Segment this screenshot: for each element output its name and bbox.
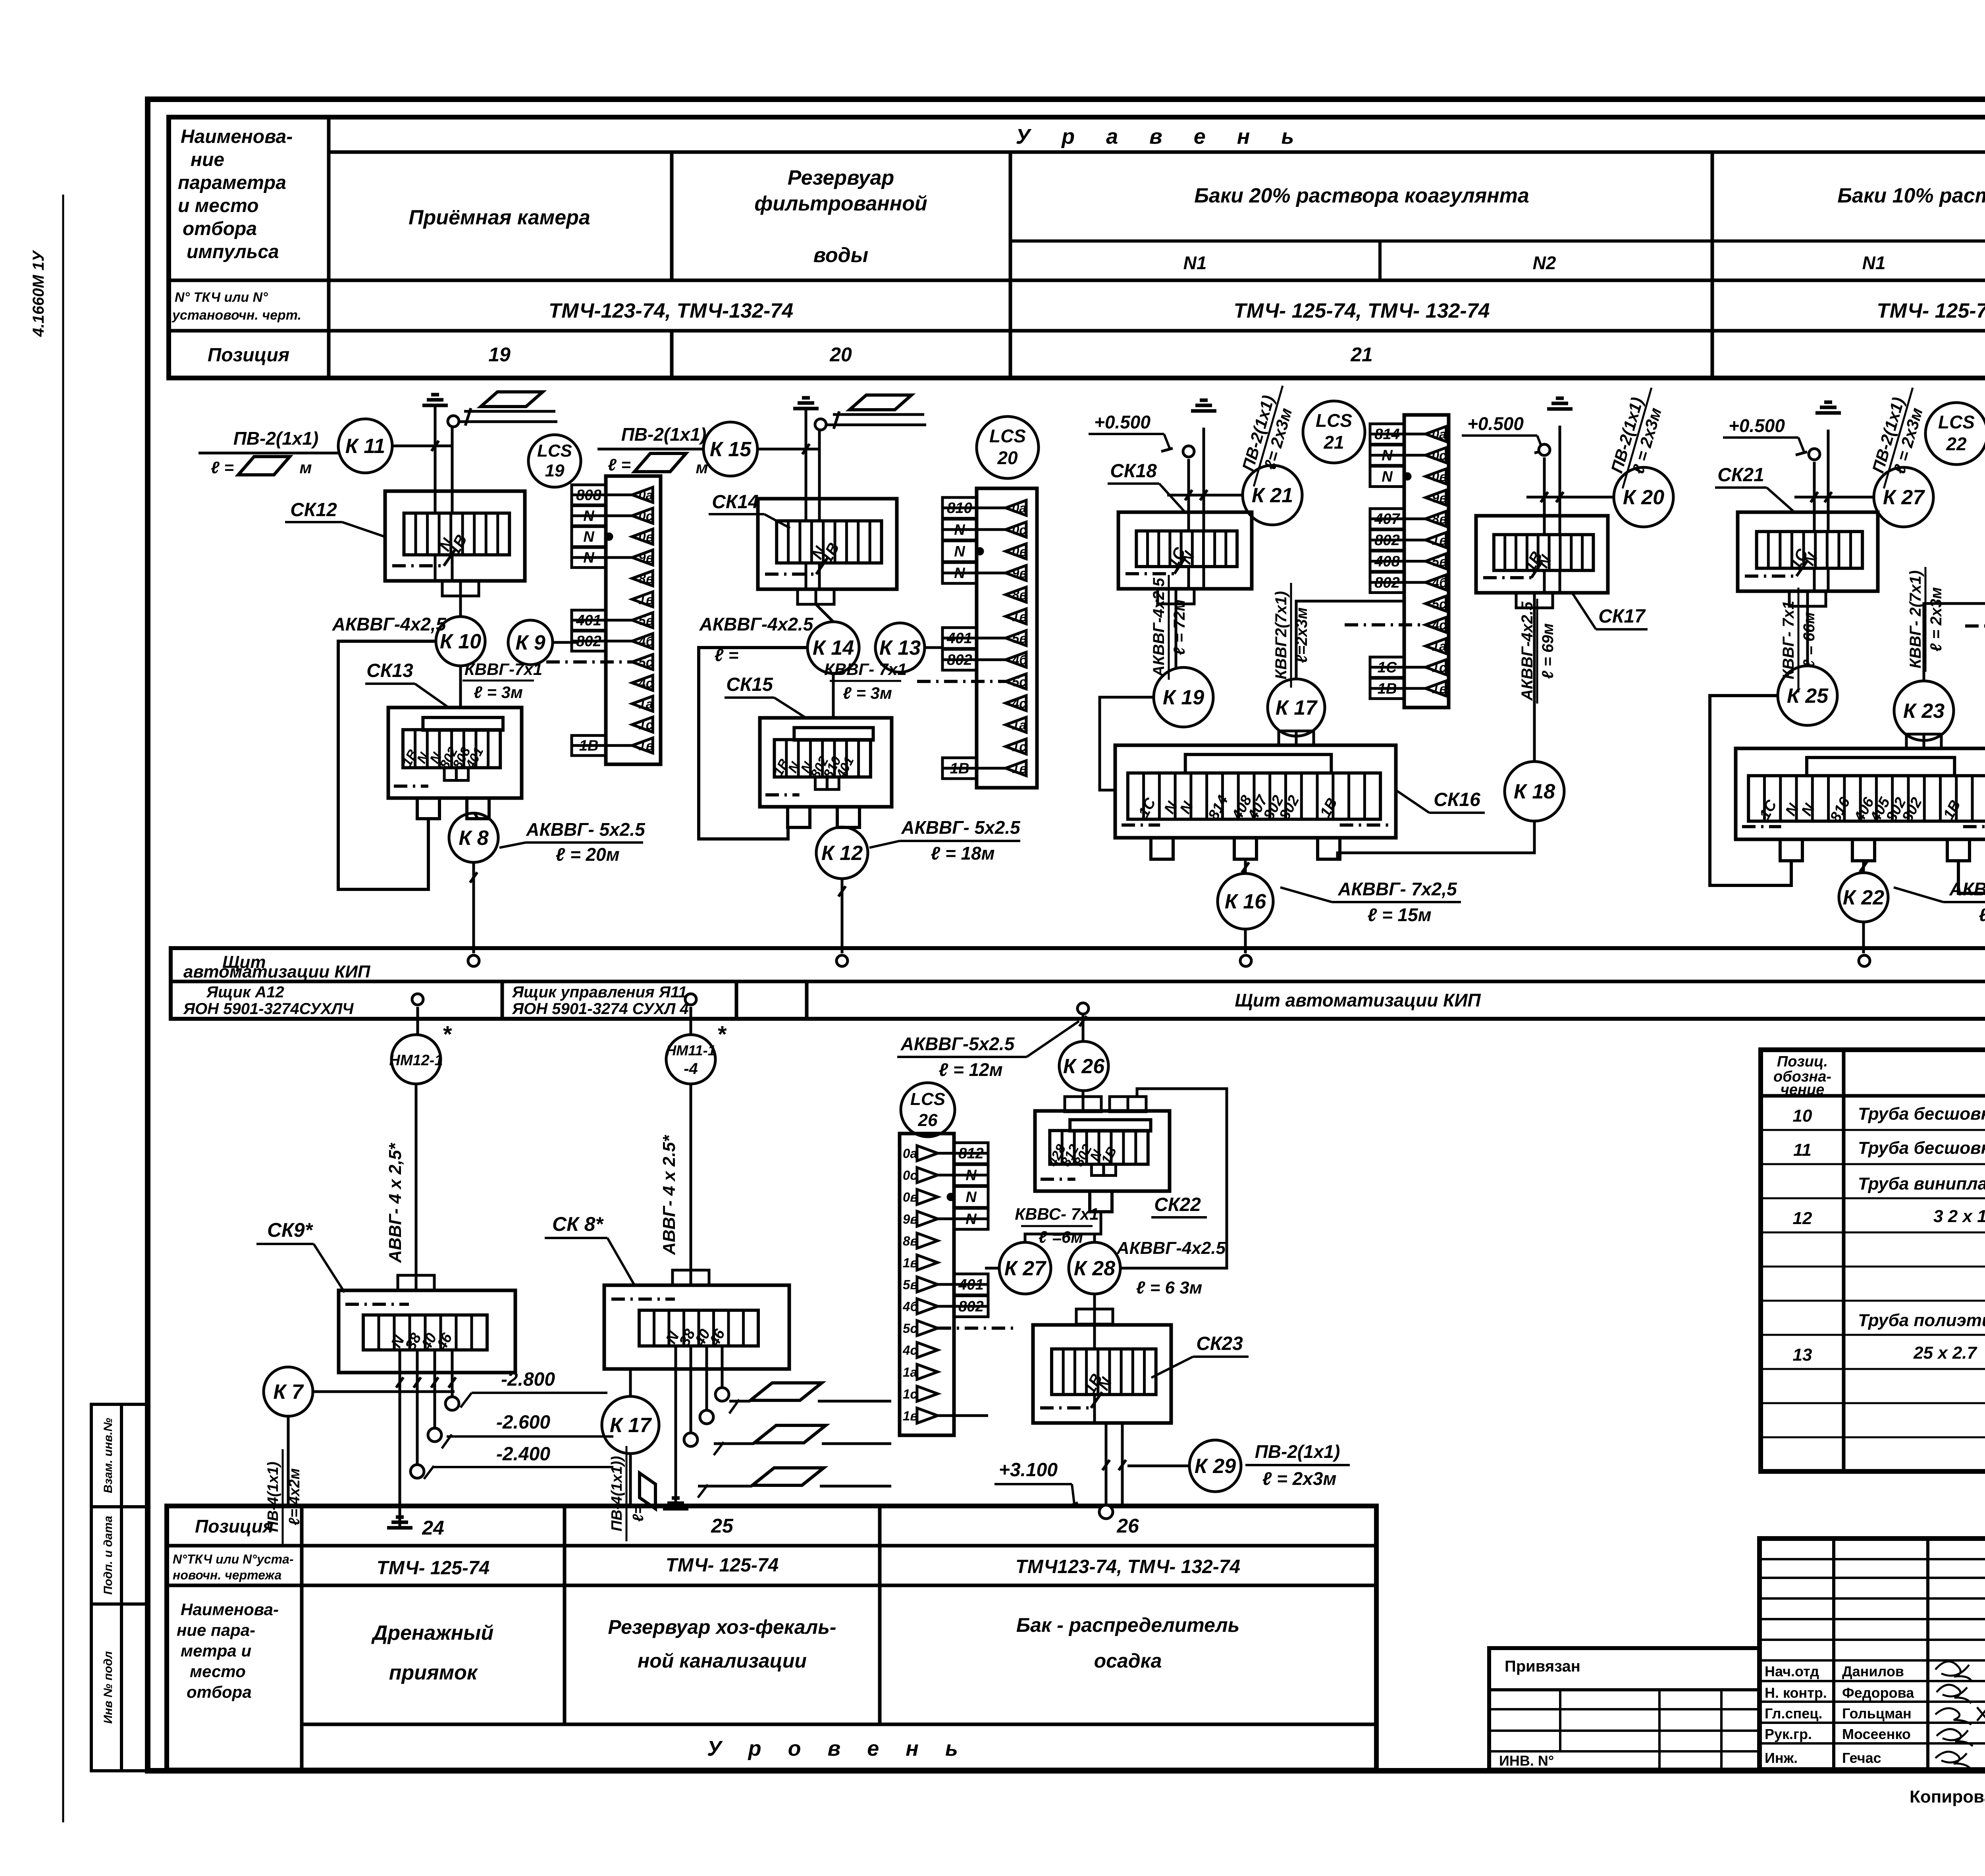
svg-text:0с: 0с (1432, 448, 1447, 463)
svg-text:1в: 1в (1012, 761, 1027, 776)
svg-text:метра и: метра и (181, 1641, 251, 1660)
svg-text:8в: 8в (1432, 512, 1447, 526)
svg-text:N: N (583, 529, 595, 546)
junction К12 (816, 827, 868, 879)
node above СК17 (1539, 444, 1550, 455)
wire strip26 to К27r (985, 1267, 999, 1270)
paper edge line left (62, 195, 64, 1822)
svg-text:К 11: К 11 (345, 435, 385, 458)
cable АКВВГ-4х2.5 run 20 (699, 648, 807, 839)
svg-text:КВВС- 7х1: КВВС- 7х1 (1015, 1205, 1099, 1223)
sensor box СК14 (758, 499, 897, 589)
svg-text:К 17: К 17 (610, 1414, 652, 1437)
cable label ПВ-2(1х1) 2х3м rotated at К21 (1235, 380, 1301, 492)
wire К17r down (629, 1454, 632, 1506)
junction К21 (1243, 465, 1302, 525)
svg-text:СК13: СК13 (366, 660, 413, 681)
junction К17 (1268, 679, 1325, 736)
svg-text:Данилов: Данилов (1842, 1663, 1904, 1679)
wire СК16 to К16 (1244, 859, 1247, 873)
svg-text:1в: 1в (638, 738, 653, 753)
title block left grid verticals (1832, 1539, 1835, 1770)
stub above СК22 right (1110, 1097, 1146, 1112)
svg-text:N: N (954, 543, 966, 560)
svg-text:СК18: СК18 (1110, 461, 1157, 482)
svg-text:К 22: К 22 (1843, 886, 1884, 909)
top table frame (169, 117, 1985, 378)
svg-text:К 20: К 20 (1623, 486, 1664, 509)
svg-text:0в: 0в (1432, 469, 1447, 484)
svg-text:26: 26 (918, 1111, 938, 1130)
svg-text:1с: 1с (903, 1386, 917, 1401)
junction К10 (436, 617, 485, 666)
sensor box СК8 (604, 1285, 789, 1369)
svg-text:Подп. и дата: Подп. и дата (102, 1516, 115, 1595)
svg-text:СК17: СК17 (1598, 606, 1646, 627)
wire СК21 to К25 (1806, 606, 1809, 666)
cable КВВГ-2(7х1) rotated (1907, 567, 1945, 672)
cable АКВВГ-4х2.5 69м rotated (1519, 599, 1557, 704)
svg-text:+0.500: +0.500 (1467, 413, 1524, 434)
wire СК13 to К8 (474, 813, 478, 819)
sensor box СК23 (1033, 1325, 1171, 1423)
cable loop АКВВГ-4х2.5 63м (1120, 1089, 1227, 1268)
svg-text:ПВ-2(1х1): ПВ-2(1х1) (621, 424, 707, 445)
svg-text:ℓ = 20м: ℓ = 20м (555, 844, 619, 865)
svg-text:9в: 9в (638, 550, 653, 565)
flag g25-2 (754, 1425, 826, 1443)
svg-text:СК14: СК14 (712, 492, 759, 513)
svg-text:Позиция: Позиция (195, 1516, 274, 1537)
wire end circle 38 (410, 1465, 424, 1478)
svg-text:Наименова-: Наименова- (181, 1600, 279, 1619)
bus band2 divider (805, 981, 809, 1019)
continuation table header row (1761, 1094, 1985, 1098)
svg-text:N2: N2 (1533, 253, 1556, 273)
svg-text:5в: 5в (1012, 631, 1027, 646)
ground at СК14 (793, 398, 819, 409)
svg-text:*: * (717, 1022, 727, 1047)
ground under СК8 (663, 1498, 688, 1509)
junction К8 (449, 813, 498, 862)
svg-text:3 2 х 1.8: 3 2 х 1.8 (1933, 1207, 1985, 1226)
svg-text:1а: 1а (1432, 639, 1447, 654)
node above СК18 (1183, 446, 1194, 457)
bottom table row line 1 (167, 1544, 1376, 1548)
wire СК12 to К10 (459, 596, 462, 617)
svg-text:СК16: СК16 (1434, 789, 1480, 810)
wire К7 crossing (313, 1390, 455, 1393)
ground under СК9 (387, 1517, 412, 1528)
svg-text:0а: 0а (1012, 501, 1027, 515)
svg-text:10: 10 (1793, 1106, 1812, 1126)
bottom table row line 2 (167, 1584, 1376, 1587)
svg-text:5с: 5с (1012, 674, 1027, 689)
svg-text:Гольцман: Гольцман (1842, 1705, 1912, 1722)
wire НМ12-1 to СК9 (415, 1084, 418, 1275)
wire К25 left to СК19 (1710, 696, 1791, 885)
svg-text:19: 19 (488, 343, 511, 366)
svg-text:АКВВГ-4х2,5: АКВВГ-4х2,5 (1150, 578, 1168, 677)
cable АКВВГ-4х2.5 72м rotated (1150, 575, 1188, 680)
svg-text:НМ12-1: НМ12-1 (389, 1052, 443, 1069)
top table row line under Уровень (329, 150, 1985, 154)
svg-text:приямок: приямок (389, 1661, 478, 1684)
node above СК12 (448, 416, 459, 427)
margin cell Взам. инв № (91, 1404, 121, 1507)
stub under СК14 (798, 589, 834, 604)
svg-text:ЯОН 5901-3274СУХЛЧ: ЯОН 5901-3274СУХЛЧ (183, 1000, 354, 1018)
top table N1 N2 subrow col5 (1712, 239, 1985, 243)
svg-text:9в: 9в (1012, 566, 1027, 580)
wire end circle 38 g25 (684, 1433, 698, 1446)
svg-text:ТМЧ- 125-74: ТМЧ- 125-74 (666, 1555, 779, 1576)
junction К9 (508, 620, 553, 665)
svg-text:АВВГ- 4 х 2.5*: АВВГ- 4 х 2.5* (659, 1135, 679, 1255)
svg-text:4б: 4б (902, 1299, 919, 1314)
svg-text:параметра: параметра (178, 172, 286, 193)
wire bus to НМ11-1 (690, 1007, 692, 1035)
svg-text:Наименова-: Наименова- (181, 126, 293, 147)
wires under СК9 (399, 1350, 401, 1528)
svg-text:ℓ = 3м: ℓ = 3м (843, 684, 892, 702)
wire СК14 to К14 (816, 604, 833, 622)
svg-text:-4: -4 (684, 1060, 698, 1078)
bottom table frame (167, 1506, 1376, 1770)
svg-text:К 13: К 13 (879, 636, 921, 659)
ground at СК17 (1547, 398, 1573, 409)
stub under СК17 (1516, 593, 1553, 608)
svg-text:1с: 1с (638, 717, 653, 732)
svg-text:Труба винипластовая ТУ6 -19-: Труба винипластовая ТУ6 -19- 051- 249 -7… (1858, 1174, 1985, 1193)
svg-text:К 7: К 7 (273, 1380, 304, 1404)
svg-text:СК9*: СК9* (267, 1219, 314, 1241)
svg-text:0с: 0с (1012, 523, 1027, 537)
svg-text:У р о в е н ь: У р о в е н ь (707, 1737, 968, 1760)
bus band2 cell Ящик управления Я11 (735, 981, 738, 1019)
svg-text:+3.100: +3.100 (999, 1460, 1058, 1481)
terminal strip LCS19 (546, 476, 661, 764)
junction К28 (1069, 1242, 1120, 1294)
terminal strip LCS26 (900, 1134, 1014, 1435)
junction box СК19 wide (1736, 734, 1985, 861)
svg-text:автоматизации КИП: автоматизации КИП (183, 962, 371, 981)
bus node K16 (1240, 955, 1251, 966)
svg-text:*: * (442, 1022, 452, 1047)
svg-text:и место: и место (178, 195, 259, 216)
stub above СК9 (398, 1275, 434, 1290)
svg-text:Приёмная камера: Приёмная камера (409, 206, 590, 229)
junction box СК22 (1035, 1111, 1170, 1212)
stub under СК12 (442, 581, 479, 596)
svg-text:К 21: К 21 (1252, 484, 1293, 507)
instrument НМ12-1* (389, 1022, 452, 1084)
svg-text:20: 20 (997, 447, 1018, 468)
svg-text:ТМЧ-123-74, ТМЧ-132-74: ТМЧ-123-74, ТМЧ-132-74 (549, 299, 793, 322)
svg-text:1с: 1с (1432, 660, 1447, 675)
junction К18 (1505, 762, 1564, 821)
ground at СК21 (1815, 402, 1841, 413)
top table col line 3 (1009, 152, 1012, 378)
svg-text:ℓ=: ℓ= (630, 1505, 647, 1522)
svg-text:К 9: К 9 (515, 631, 545, 654)
svg-text:-2.600: -2.600 (496, 1412, 550, 1433)
svg-text:+0.500: +0.500 (1729, 415, 1785, 436)
svg-text:К 25: К 25 (1787, 684, 1829, 708)
top table row line under headers (169, 279, 1985, 282)
junction К20 (1614, 467, 1673, 527)
flag above СК14 (850, 395, 912, 410)
svg-text:5в: 5в (638, 613, 653, 628)
wire К15 to sensors (757, 448, 819, 451)
flag g25-1 (750, 1383, 822, 1400)
svg-text:ИНВ. N°: ИНВ. N° (1499, 1753, 1554, 1769)
svg-text:+0.500: +0.500 (1094, 412, 1151, 432)
wire К7 down (287, 1416, 290, 1506)
wire end circle 46 g25 (715, 1388, 729, 1401)
svg-text:воды: воды (813, 244, 868, 267)
stub above СК22 left (1065, 1097, 1101, 1112)
svg-text:К 18: К 18 (1514, 780, 1555, 803)
junction К11 (338, 419, 392, 473)
wire К27 crossing (1794, 496, 1874, 499)
cable label ПВ-2(1х1) 2х3м rotated at К20 (1603, 382, 1670, 494)
Привязан box (1489, 1648, 1760, 1770)
svg-text:5с: 5с (903, 1321, 917, 1336)
bus band Щит автоматизации КИП (171, 948, 1985, 1019)
svg-text:КВВГ- 2(7х1): КВВГ- 2(7х1) (1907, 571, 1924, 669)
svg-text:СК15: СК15 (726, 674, 773, 695)
wires under СК8 (675, 1346, 677, 1509)
sensor box СК12 (385, 491, 525, 581)
svg-text:ПВ-2(1х1): ПВ-2(1х1) (1255, 1441, 1340, 1462)
svg-text:ℓ =: ℓ = (211, 458, 234, 477)
svg-text:осадка: осадка (1094, 1650, 1162, 1672)
junction К14 (807, 622, 859, 673)
wire К19 left to СК16 (1100, 697, 1154, 790)
svg-text:4с: 4с (1012, 696, 1027, 711)
wire К20 crossing (1526, 496, 1614, 499)
wire К9 to strip19 (553, 641, 579, 644)
svg-text:Федорова: Федорова (1842, 1685, 1914, 1701)
wire К10 to СК13 (459, 666, 462, 708)
junction К15 (703, 422, 757, 476)
svg-text:ТМЧ- 125-74, ТМЧ- 132-74: ТМЧ- 125-74, ТМЧ- 132-74 (1877, 299, 1985, 322)
svg-text:ℓ = 6 3м: ℓ = 6 3м (1136, 1278, 1203, 1298)
svg-text:ℓ = 69м: ℓ = 69м (1539, 623, 1557, 679)
svg-text:4.1660М 1У: 4.1660М 1У (30, 250, 47, 337)
svg-text:место: место (190, 1662, 246, 1681)
junction К13 (875, 623, 925, 672)
wire bus to НМ12-1 (416, 1007, 419, 1035)
margin cell Инв № подл (91, 1604, 121, 1771)
svg-text:Рук.гр.: Рук.гр. (1765, 1726, 1812, 1742)
svg-text:Ящик управления Я11: Ящик управления Я11 (512, 983, 687, 1001)
wire end circle 46 (445, 1397, 459, 1410)
wire end circle +3.100 (1099, 1505, 1113, 1519)
svg-text:ЯОН 5901-3274 СУХЛ 4: ЯОН 5901-3274 СУХЛ 4 (512, 1000, 689, 1018)
svg-text:N1: N1 (1862, 253, 1886, 273)
wire СК19 to К22 (1862, 861, 1865, 873)
svg-text:Баки 10% раствора коагулянт: Баки 10% раствора коагулянта (1837, 184, 1985, 207)
svg-text:8в: 8в (903, 1234, 918, 1248)
svg-text:отбора: отбора (183, 218, 257, 239)
stub under СК18 (1158, 589, 1194, 604)
svg-text:26: 26 (1116, 1515, 1139, 1537)
svg-text:0с: 0с (638, 509, 653, 523)
bus band2 cell Ящик А12 (501, 981, 504, 1019)
wire СК17 to К18 (1533, 608, 1536, 762)
svg-text:ТМЧ- 125-74, ТМЧ- 132-74: ТМЧ- 125-74, ТМЧ- 132-74 (1233, 299, 1490, 322)
junction К17 (repeat) (602, 1396, 659, 1454)
ground at СК12 (422, 395, 448, 405)
svg-text:0в: 0в (638, 530, 653, 544)
svg-text:9в: 9в (1432, 490, 1447, 505)
wire К23 to strip22 (1924, 603, 1985, 681)
svg-text:-2.800: -2.800 (501, 1369, 555, 1390)
svg-text:Взам. инв.№: Взам. инв.№ (102, 1418, 115, 1493)
terminal strip LCS20 (917, 488, 1037, 788)
sensor box СК17 (1476, 516, 1608, 593)
svg-text:Позиц.: Позиц. (1777, 1053, 1828, 1070)
svg-text:21: 21 (1350, 343, 1373, 366)
wire К17 to strip21 (1296, 601, 1404, 679)
wire К17 to СК16 (1295, 736, 1298, 745)
wire К16 to bus (1244, 929, 1247, 953)
svg-text:4б: 4б (638, 634, 654, 649)
svg-text:КВВГ-7х1: КВВГ-7х1 (464, 660, 542, 679)
svg-text:чение: чение (1781, 1082, 1825, 1098)
svg-text:ПВ-4(1х1): ПВ-4(1х1) (265, 1461, 281, 1532)
terminal strip LCS22 (1965, 415, 1985, 709)
svg-text:К 27: К 27 (1004, 1257, 1046, 1280)
svg-text:АКВВГ-5х2.5: АКВВГ-5х2.5 (900, 1033, 1015, 1054)
wires under СК23 (1105, 1423, 1108, 1505)
svg-text:Нач.отд: Нач.отд (1765, 1663, 1819, 1679)
svg-text:ℓ = 15м: ℓ = 15м (1367, 904, 1431, 925)
svg-text:25 х 2.7: 25 х 2.7 (1913, 1343, 1978, 1363)
svg-text:0в: 0в (1012, 544, 1027, 559)
svg-text:25: 25 (711, 1515, 734, 1537)
svg-text:4б: 4б (1012, 653, 1028, 667)
svg-text:Дренажный: Дренажный (371, 1621, 493, 1645)
svg-text:Баки 20% раствора коагулянт: Баки 20% раствора коагулянта (1194, 184, 1529, 207)
svg-text:9в: 9в (903, 1212, 918, 1226)
svg-text:5с: 5с (638, 655, 653, 669)
sensor box СК21 (1738, 512, 1878, 591)
svg-text:5с: 5с (1432, 596, 1447, 611)
svg-text:N° ТКЧ или N°: N° ТКЧ или N° (175, 290, 268, 305)
svg-text:LCS: LCS (1316, 410, 1352, 431)
svg-text:КВВГ2(7х1): КВВГ2(7х1) (1272, 591, 1290, 680)
svg-text:LCS: LCS (910, 1089, 945, 1109)
svg-text:СК12: СК12 (290, 499, 337, 521)
svg-text:ℓ =: ℓ = (608, 455, 631, 474)
svg-text:LCS: LCS (537, 441, 572, 461)
svg-text:АКВВГ-4х2.5: АКВВГ-4х2.5 (699, 614, 814, 634)
svg-text:ℓ = 2х3м: ℓ = 2х3м (1262, 1468, 1337, 1489)
stub above СК23 (1076, 1309, 1113, 1324)
svg-text:13: 13 (1793, 1345, 1812, 1365)
signatures (1935, 1662, 1985, 1769)
svg-text:0а: 0а (638, 488, 653, 502)
svg-text:22: 22 (1946, 434, 1967, 454)
svg-text:фильтрованной: фильтрованной (754, 192, 927, 215)
stub under СК21 (1789, 591, 1826, 606)
title block frame (1760, 1539, 1985, 1770)
level mark +0.500 at СК17 (1462, 413, 1546, 453)
svg-text:К 23: К 23 (1903, 700, 1945, 723)
node above СК14 (815, 419, 826, 430)
bus node К26 (1077, 1003, 1089, 1014)
svg-text:новочн. чертежа: новочн. чертежа (173, 1568, 281, 1582)
junction К7 (264, 1367, 313, 1416)
svg-text:0а: 0а (1432, 427, 1447, 442)
wire bus to К26r (1082, 1015, 1085, 1041)
wire end circle 40 g25 (700, 1410, 713, 1424)
junction box СК15 (760, 718, 892, 827)
wire К13 to strip20 (925, 646, 941, 649)
sensor box СК9 (339, 1290, 515, 1373)
wire К22 to bus (1862, 922, 1865, 953)
svg-text:К 10: К 10 (440, 630, 481, 653)
svg-text:м: м (299, 458, 312, 477)
flag above СК12 (481, 392, 543, 407)
cable ПВ-4(1х1) 4х2м rotated (265, 1449, 303, 1544)
svg-text:ℓ =6м: ℓ =6м (1039, 1228, 1083, 1246)
svg-text:У р а в е н ь: У р а в е н ь (1016, 125, 1307, 148)
svg-text:АКВВГ- 5х2.5: АКВВГ- 5х2.5 (526, 819, 646, 840)
svg-text:N: N (1382, 469, 1393, 485)
svg-text:ℓ=2х3м: ℓ=2х3м (1293, 607, 1310, 663)
svg-text:ℓ = 15м: ℓ = 15м (1979, 904, 1985, 925)
svg-text:Бак - распределитель: Бак - распределитель (1016, 1614, 1240, 1636)
bus band divider line (171, 980, 1985, 983)
svg-text:8в: 8в (638, 571, 653, 586)
instrument НМ11-1* (666, 1022, 727, 1084)
wire К24 to СК19 loop (1958, 773, 1985, 893)
svg-text:12: 12 (1793, 1209, 1812, 1228)
svg-text:СК23: СК23 (1196, 1333, 1243, 1354)
level mark +0.500 at СК21 (1723, 415, 1807, 455)
title block left grid rows (1760, 1559, 1985, 1743)
svg-text:К 17: К 17 (1276, 696, 1318, 719)
svg-text:Ящик А12: Ящик А12 (206, 983, 284, 1001)
bus node НМ11-1 (685, 994, 696, 1005)
svg-text:4с: 4с (1432, 618, 1447, 632)
wire СК22 to К27r К28 (1025, 1212, 1101, 1242)
svg-text:21: 21 (1323, 432, 1344, 453)
ground at СК18 (1191, 400, 1216, 411)
svg-text:1в: 1в (1432, 533, 1447, 548)
junction К27 (1874, 467, 1933, 527)
svg-text:К 8: К 8 (459, 827, 488, 850)
svg-text:0с: 0с (903, 1168, 917, 1183)
wire СК15 to К12 (841, 827, 844, 828)
wire К12 to bus (841, 879, 844, 953)
svg-text:Позиция: Позиция (208, 345, 289, 366)
svg-text:К 19: К 19 (1163, 686, 1204, 709)
svg-text:1в: 1в (903, 1255, 918, 1270)
svg-text:N: N (966, 1189, 977, 1206)
svg-text:24: 24 (422, 1517, 444, 1539)
svg-text:5в: 5в (1432, 554, 1447, 569)
svg-text:АКВВГ- 5х2.5: АКВВГ- 5х2.5 (901, 817, 1021, 838)
terminal strip LCS21 (1345, 415, 1449, 708)
svg-text:К 15: К 15 (710, 438, 752, 461)
svg-text:отбора: отбора (187, 1683, 252, 1701)
svg-text:НМ11-1: НМ11-1 (666, 1042, 715, 1059)
